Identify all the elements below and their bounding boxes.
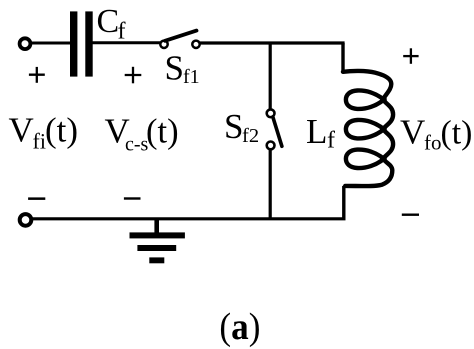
wire Sf1 to top-right corner (200, 41, 345, 44)
minus sign Vfo (402, 214, 419, 216)
ground bar 1 (130, 232, 185, 238)
label Sf2 (224, 107, 259, 147)
label Vfo(t) (400, 112, 472, 154)
wire inductor to bottom rail (342, 186, 345, 219)
svg-text:L: L (306, 112, 327, 151)
svg-text:fo: fo (424, 130, 442, 154)
label Sf1 (165, 49, 200, 89)
wire capacitor to switch Sf1 (93, 41, 161, 44)
plus sign Vfo (403, 48, 418, 64)
plus sign Vc-s (125, 67, 142, 84)
minus sign Vc-s (124, 197, 141, 199)
switch Sf2 bottom contact (267, 142, 275, 150)
label Lf (306, 112, 335, 154)
switch Sf1 lever (165, 31, 197, 41)
inductor L1 winding wire (343, 71, 393, 186)
svg-text:V: V (400, 112, 425, 151)
output terminal bottom-left (20, 214, 32, 226)
svg-text:c-s: c-s (125, 133, 149, 155)
switch Sf1 right contact (192, 41, 199, 48)
label (a) (219, 306, 260, 348)
svg-text:C: C (97, 3, 120, 40)
switch Sf2 lever (273, 117, 282, 147)
label Vc-s(t) (105, 111, 179, 155)
ground stem (154, 219, 159, 233)
ground bar 3 (149, 257, 164, 263)
svg-text:(a): (a) (219, 306, 260, 348)
svg-text:(t): (t) (45, 110, 78, 149)
switch Sf2 top contact (267, 109, 275, 117)
ground bar 2 (137, 245, 176, 251)
svg-text:S: S (224, 107, 243, 146)
wire top-right corner down to inductor (341, 43, 344, 72)
wire Sf2 to bottom rail (269, 150, 272, 219)
inductor L1 loop 1 (346, 90, 385, 108)
wire terminal to capacitor (31, 42, 71, 45)
svg-text:S: S (165, 49, 184, 88)
svg-text:f: f (327, 128, 335, 154)
svg-text:f2: f2 (242, 125, 259, 147)
input terminal top-left (20, 38, 31, 49)
capacitor C1 right plate (85, 11, 92, 76)
svg-text:V: V (9, 110, 34, 149)
label Cf (97, 3, 126, 44)
label Vfi(t) (9, 110, 79, 153)
svg-text:(t): (t) (146, 112, 179, 150)
capacitor C1 left plate (70, 11, 77, 76)
bottom rail wire (32, 217, 346, 220)
minus sign Vfi (28, 197, 45, 200)
svg-text:f1: f1 (183, 66, 200, 88)
switch Sf1 left contact (160, 41, 167, 48)
inductor L1 loop 2 (346, 120, 385, 138)
svg-text:fi: fi (33, 128, 46, 153)
plus sign Vfi (29, 67, 45, 83)
svg-text:(t): (t) (441, 114, 473, 151)
node: middle branch wire down to Sf2 (269, 43, 272, 109)
svg-text:f: f (118, 18, 126, 44)
inductor L1 loop 3 (346, 150, 385, 168)
